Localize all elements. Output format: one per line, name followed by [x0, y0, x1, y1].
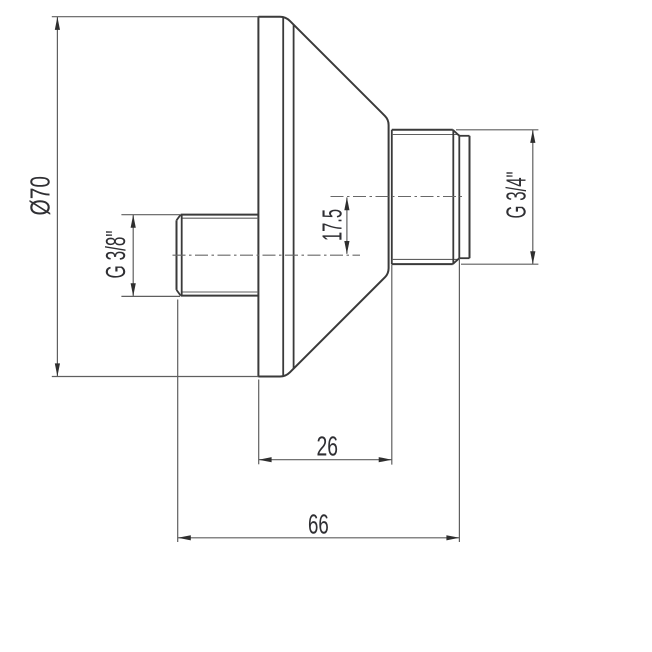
flange left face — [257, 16, 259, 377]
right pilot top edge — [459, 135, 469, 137]
right thread root bottom (thin) — [392, 258, 460, 260]
dia70 extension line bottom — [52, 376, 259, 378]
dia70 arrow bottom — [55, 363, 60, 376]
right thread crest bottom — [392, 263, 453, 265]
dim 66 arrow right — [446, 535, 459, 540]
svg-text:G 3/8": G 3/8" — [100, 231, 131, 279]
right end face — [469, 136, 471, 258]
right pilot cylinder line — [458, 136, 460, 258]
right thread end chamfer top — [453, 130, 460, 136]
dim 26 extension line left — [258, 380, 260, 465]
dim 66 extension line right — [458, 259, 460, 543]
dim 66 dimension line — [178, 537, 460, 539]
left thread crest top — [181, 214, 259, 216]
dia70 extension line top — [52, 16, 259, 18]
G38 extension line top — [121, 214, 180, 216]
dim 17.5 arrow top — [344, 197, 349, 210]
G34 dimension line — [532, 130, 534, 264]
dim 17.5 dimension line — [346, 197, 348, 253]
dim 66 arrow left — [178, 535, 191, 540]
dim 26 dimension line — [259, 459, 392, 461]
dim 17.5 arrow bottom — [344, 241, 349, 254]
right port centerline — [331, 196, 463, 198]
dim 26 arrow right — [379, 457, 392, 462]
cone base edge — [293, 25, 295, 369]
G38 arrow bottom — [131, 283, 136, 296]
dim 66 extension line left — [177, 300, 179, 543]
svg-text:17.5: 17.5 — [317, 209, 348, 241]
dia70 arrow top — [55, 17, 60, 30]
fitting body outline: flange disc + cone silhouette — [258, 17, 388, 377]
left thread crest bottom — [181, 295, 259, 297]
right chamfer circle line — [452, 130, 454, 264]
svg-text:66: 66 — [308, 508, 329, 539]
dim 26 arrow left — [259, 457, 272, 462]
right thread end chamfer bottom — [453, 258, 460, 264]
G38 arrow top — [131, 215, 136, 228]
left port centerline — [173, 254, 361, 256]
G34 extension line bottom — [461, 263, 538, 265]
G34 arrow top — [530, 130, 535, 143]
right thread root top (thin) — [392, 134, 460, 136]
right thread start vertical — [391, 130, 393, 264]
left thread root bottom (thin) — [182, 291, 258, 293]
left end face — [176, 220, 178, 290]
left thread root top (thin) — [182, 217, 258, 219]
G38 dimension line — [132, 215, 134, 296]
G34 extension line top — [456, 129, 538, 131]
right thread crest top — [392, 129, 453, 131]
flange right face — [282, 17, 284, 377]
dim 26 extension line right — [391, 265, 393, 465]
left end chamfer bottom — [177, 290, 181, 296]
left end chamfer top — [177, 215, 181, 221]
G38 extension line bottom — [121, 295, 180, 297]
G34 arrow bottom — [530, 251, 535, 264]
left chamfer circle line — [181, 215, 183, 296]
svg-text:Ø70: Ø70 — [25, 176, 56, 216]
right pilot bottom edge — [459, 257, 469, 259]
dia70 dimension line — [56, 17, 58, 376]
svg-text:26: 26 — [317, 430, 339, 461]
svg-text:G 3/4": G 3/4" — [500, 172, 531, 219]
